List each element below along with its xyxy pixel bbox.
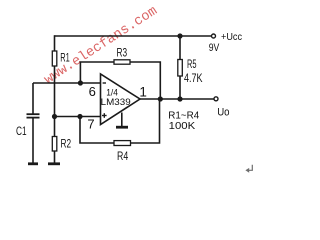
svg-text:7: 7: [87, 116, 94, 131]
svg-text:Uo: Uo: [217, 107, 229, 119]
svg-text:R1: R1: [60, 50, 70, 64]
svg-text:100K: 100K: [169, 120, 196, 132]
svg-text:4.7K: 4.7K: [184, 71, 203, 85]
svg-text:LM339: LM339: [101, 97, 131, 108]
svg-text:+Ucc: +Ucc: [221, 31, 242, 43]
svg-text:R2: R2: [61, 137, 72, 151]
svg-text:9V: 9V: [209, 42, 220, 54]
svg-text:1: 1: [139, 84, 147, 99]
svg-text:R5: R5: [187, 57, 197, 71]
svg-text:C1: C1: [16, 124, 27, 138]
svg-text:6: 6: [89, 84, 96, 99]
svg-text:R4: R4: [117, 149, 128, 163]
svg-text:R3: R3: [117, 46, 128, 60]
